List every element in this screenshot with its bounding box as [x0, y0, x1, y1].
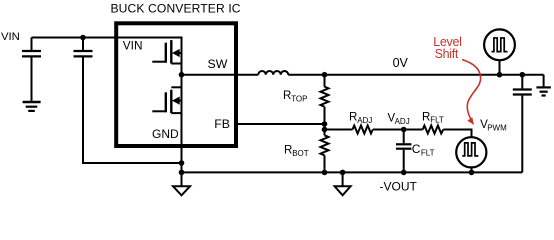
- node junction dot VIN/C-in2: [80, 35, 86, 41]
- capacitor C-in2: [74, 38, 93, 57]
- wire 0V rail: [288, 74, 543, 76]
- svg-text:R: R: [422, 111, 430, 123]
- svg-text:-VOUT: -VOUT: [380, 180, 418, 194]
- wire FB line: [238, 123, 325, 125]
- inductor L1: [258, 71, 288, 75]
- svg-text:FB: FB: [214, 117, 230, 131]
- node dot R_BOT bottom: [322, 170, 328, 176]
- node dot V_PWM bottom: [469, 170, 475, 176]
- svg-text:ADJ: ADJ: [395, 117, 410, 126]
- wire ADJ line left: [325, 129, 353, 131]
- wire R_ADJ to V_ADJ node: [373, 129, 404, 131]
- svg-text:BUCK CONVERTER IC: BUCK CONVERTER IC: [111, 2, 241, 16]
- node dot GND/bottom rail: [179, 170, 185, 176]
- source V_PWM bottom pulse source: [456, 137, 486, 172]
- wire FB to ADJ node: [324, 124, 326, 130]
- ground triangle mid bottom: [335, 172, 351, 195]
- resistor R_ADJ: [353, 126, 373, 134]
- node top-right cap junction dot: [520, 72, 526, 78]
- svg-text:SW: SW: [208, 57, 228, 71]
- svg-text:GND: GND: [152, 127, 179, 141]
- svg-text:BOT: BOT: [292, 149, 309, 158]
- svg-text:R: R: [283, 90, 291, 102]
- svg-text:Shift: Shift: [435, 47, 459, 61]
- wire R_FLT to V_PWM source: [443, 130, 471, 138]
- svg-text:R: R: [349, 112, 357, 124]
- node dot ground stub: [340, 170, 346, 176]
- svg-text:VIN: VIN: [123, 38, 143, 52]
- svg-text:PWM: PWM: [487, 124, 507, 133]
- node FB junction dot: [322, 121, 328, 127]
- resistor R_BOT: [321, 130, 329, 173]
- capacitor C-out top right: [513, 75, 532, 173]
- capacitor C-in1: [22, 38, 41, 102]
- svg-text:ADJ: ADJ: [357, 116, 372, 125]
- node top source junction dot: [497, 72, 503, 78]
- annotation red arrow curve: [462, 60, 481, 122]
- svg-text:FLT: FLT: [430, 116, 444, 125]
- svg-text:R: R: [284, 144, 292, 156]
- source V_PWM top pulse source: [484, 29, 515, 74]
- capacitor C_FLT: [396, 130, 411, 173]
- wire VIN rail: [32, 37, 182, 39]
- ground earth symbol under C-in1: [23, 102, 41, 111]
- ground earth symbol top right: [536, 75, 551, 96]
- svg-text:VIN: VIN: [1, 31, 20, 43]
- node junction dot R_TOP top: [322, 72, 328, 78]
- wire V_ADJ to R_FLT: [404, 129, 423, 131]
- resistor R_TOP: [321, 75, 329, 124]
- resistor R_FLT: [423, 126, 444, 134]
- svg-text:TOP: TOP: [291, 95, 307, 104]
- svg-text:0V: 0V: [393, 56, 409, 70]
- wire -VOUT bottom rail: [182, 171, 523, 173]
- ground triangle under GND pin: [173, 186, 190, 195]
- node dot C_FLT bottom: [401, 170, 407, 176]
- wire C-in2 bottom to GND node: [83, 58, 182, 164]
- node V_ADJ dot: [401, 127, 407, 133]
- op IC box buck converter: [116, 23, 236, 146]
- node SW junction dot: [179, 72, 185, 78]
- node ADJ branch dot: [322, 127, 328, 133]
- transistor Q1 high-side MOSFET: [152, 40, 181, 63]
- node dot GND/cap2 line: [179, 160, 185, 166]
- wire SW line: [182, 74, 259, 76]
- svg-text:FLT: FLT: [421, 148, 435, 157]
- transistor Q2 low-side MOSFET: [152, 87, 181, 113]
- svg-text:C: C: [412, 142, 421, 156]
- wire internal node vertical (VIN to GND through FETs): [181, 37, 183, 187]
